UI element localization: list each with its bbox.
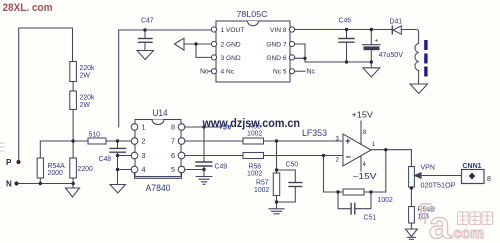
svg-text:220k: 220k bbox=[80, 95, 95, 102]
svg-text:6: 6 bbox=[171, 151, 175, 160]
node P dot bbox=[16, 160, 20, 164]
svg-text:C50: C50 bbox=[286, 162, 299, 169]
resistor R54A 2000 bbox=[39, 141, 41, 158]
svg-text:D41: D41 bbox=[390, 19, 403, 26]
resistor R56 1002 bbox=[243, 153, 264, 159]
resistor output upper bbox=[410, 150, 412, 167]
ground under electrolytic bbox=[370, 62, 372, 68]
resistor R55 1002 bbox=[243, 138, 264, 144]
resistor 510 bbox=[88, 138, 106, 144]
svg-text:2 GND: 2 GND bbox=[221, 42, 241, 49]
IC U14 A7840 box bbox=[135, 120, 181, 177]
pin text 78L05 left bbox=[221, 27, 245, 76]
pin circles 78L05 right bbox=[289, 27, 294, 32]
svg-text:a: a bbox=[429, 205, 451, 243]
svg-text:4: 4 bbox=[363, 162, 367, 168]
svg-text:CNN1: CNN1 bbox=[463, 163, 482, 170]
svg-text:4: 4 bbox=[142, 165, 146, 174]
svg-text:1 VOUT: 1 VOUT bbox=[221, 27, 245, 34]
resistor R57 branch bbox=[276, 141, 278, 173]
capacitor C46 bbox=[346, 30, 348, 39]
wire U14 pin3 bbox=[118, 155, 132, 157]
pin numbers U14 bbox=[142, 123, 176, 175]
connector CNN1 pin diamond bbox=[469, 173, 475, 180]
svg-text:2200: 2200 bbox=[78, 166, 93, 173]
capacitor C47 bbox=[144, 30, 146, 38]
op-amp U16 LF353 bbox=[343, 134, 371, 166]
arrow VPN bbox=[415, 173, 421, 179]
wire divider rail y141 bbox=[40, 140, 131, 142]
svg-text:+15V: +15V bbox=[352, 111, 374, 120]
svg-text:−: − bbox=[346, 152, 352, 163]
svg-text:2: 2 bbox=[336, 158, 340, 164]
wire +5V down to U14 pin1 bbox=[118, 30, 120, 127]
pin circles U14 left bbox=[131, 124, 138, 131]
svg-text:C49: C49 bbox=[215, 164, 228, 171]
svg-text:C46: C46 bbox=[339, 18, 352, 25]
capacitor electrolytic 47u50V bbox=[370, 30, 372, 45]
ground hatched under C49 bbox=[196, 177, 211, 185]
svg-text:1: 1 bbox=[142, 123, 146, 132]
svg-text:A7840: A7840 bbox=[146, 183, 171, 193]
wire U14 pin6 rail bbox=[185, 155, 243, 157]
diode D41 bbox=[391, 26, 393, 34]
svg-text:2W: 2W bbox=[80, 73, 91, 80]
svg-text:VIN 8: VIN 8 bbox=[270, 27, 287, 34]
pin numbers op-amp bbox=[336, 130, 376, 168]
svg-text:2: 2 bbox=[142, 137, 146, 146]
svg-text:020T51OP: 020T51OP bbox=[421, 183, 456, 190]
wire U14 pin7 rail bbox=[185, 140, 243, 142]
connector CNN1 box bbox=[462, 170, 485, 184]
resistor R 220k lower bbox=[70, 91, 77, 110]
svg-text:8: 8 bbox=[171, 123, 175, 132]
svg-text:U14: U14 bbox=[153, 108, 168, 118]
ground small under R54B bbox=[405, 229, 417, 237]
wire between 220k resistors bbox=[72, 82, 74, 92]
svg-text:8: 8 bbox=[487, 176, 491, 183]
capacitor C51 parallel bbox=[338, 192, 351, 209]
wire top-left loop bbox=[19, 28, 73, 162]
svg-text:−15V: −15V bbox=[353, 172, 378, 181]
ground under C47 bbox=[137, 51, 154, 60]
svg-text:3 GND: 3 GND bbox=[221, 55, 241, 62]
svg-text:3: 3 bbox=[142, 151, 146, 160]
ground hatched under R57 bbox=[269, 209, 284, 214]
svg-text:1002: 1002 bbox=[247, 131, 262, 138]
wire U14 pin8 +5V rail bbox=[185, 126, 222, 128]
svg-text:1: 1 bbox=[372, 142, 376, 148]
svg-text:4 Nc: 4 Nc bbox=[221, 69, 235, 76]
wire -15V supply bbox=[360, 156, 362, 171]
svg-text:1002: 1002 bbox=[254, 187, 269, 194]
ground under coil bbox=[418, 71, 420, 85]
svg-text:103: 103 bbox=[418, 214, 430, 221]
wire U14 pin4 bbox=[118, 169, 132, 171]
feedback network wire bbox=[324, 156, 344, 193]
wire Nc stub left pin4 bbox=[208, 70, 211, 72]
svg-text:8: 8 bbox=[363, 130, 367, 136]
svg-text:P: P bbox=[6, 158, 12, 167]
pin circles 78L05 left bbox=[211, 27, 216, 32]
svg-text:510: 510 bbox=[89, 132, 101, 139]
arrow input to 78L05 pins 2,3 bbox=[175, 38, 185, 50]
svg-text:.com: .com bbox=[449, 225, 484, 242]
svg-text:Nc: Nc bbox=[200, 69, 209, 76]
ground under 2200 bbox=[66, 188, 80, 197]
svg-text:LF353: LF353 bbox=[302, 128, 327, 138]
svg-text:N: N bbox=[6, 180, 12, 189]
resistor R54B 103 bbox=[409, 207, 415, 224]
svg-text:VPN: VPN bbox=[421, 165, 435, 172]
svg-text:1002: 1002 bbox=[378, 197, 393, 204]
svg-text:R55: R55 bbox=[249, 123, 262, 130]
resistor R 220k upper bbox=[70, 62, 77, 82]
watermark qijia bottom right bbox=[421, 204, 493, 243]
svg-text:R57: R57 bbox=[256, 180, 269, 187]
wire U14 pin4-pin5 strap bbox=[135, 173, 182, 179]
wire 220k chain to divider rail bbox=[72, 110, 74, 142]
capacitor C48 bbox=[117, 141, 119, 148]
wire op-amp output bbox=[371, 149, 412, 151]
svg-text:2W: 2W bbox=[80, 102, 91, 109]
wire C47 rail to 78L05 pin1 bbox=[119, 29, 212, 31]
inductor winding L1 bbox=[415, 44, 419, 71]
svg-text:+5V: +5V bbox=[219, 123, 232, 132]
ground under C48 bbox=[110, 185, 126, 194]
svg-text:1002: 1002 bbox=[247, 170, 262, 177]
svg-text:+: + bbox=[345, 136, 351, 147]
svg-text:+: + bbox=[375, 38, 379, 45]
svg-text:5: 5 bbox=[171, 165, 175, 174]
svg-text:C48: C48 bbox=[99, 156, 112, 163]
svg-text:220k: 220k bbox=[80, 65, 95, 72]
wire U14 pin5 to C49 bbox=[185, 169, 204, 171]
svg-text:R54A: R54A bbox=[48, 163, 66, 170]
faint left edge mark bbox=[0, 143, 5, 151]
wire Nc stub right pin5 bbox=[295, 70, 305, 72]
wire 78L05 pin7 to pin6 bbox=[295, 44, 305, 58]
svg-text:2000: 2000 bbox=[48, 170, 63, 177]
pin text 78L05 right bbox=[266, 27, 286, 76]
IC U15 78L05C box bbox=[216, 21, 290, 82]
svg-text:R56: R56 bbox=[249, 163, 262, 170]
svg-text:28XL. com: 28XL. com bbox=[3, 2, 53, 14]
wire VIN rail bbox=[295, 29, 392, 31]
svg-text:C51: C51 bbox=[364, 215, 377, 222]
svg-text:C47: C47 bbox=[141, 18, 154, 25]
svg-text:3: 3 bbox=[336, 137, 340, 143]
svg-text:7: 7 bbox=[171, 137, 175, 146]
wire +15V supply bbox=[360, 121, 362, 144]
node N dot bbox=[14, 181, 18, 185]
resistor 2200 bbox=[72, 141, 74, 158]
svg-text:GND 6: GND 6 bbox=[266, 55, 286, 62]
svg-text:47u50V: 47u50V bbox=[379, 52, 404, 59]
wire VPN to CNN1 bbox=[420, 175, 462, 177]
svg-text:Nc 5: Nc 5 bbox=[273, 69, 287, 76]
transformer core bars bbox=[424, 40, 427, 77]
svg-text:Nc: Nc bbox=[307, 69, 316, 76]
capacitor C49 branch bbox=[203, 127, 205, 162]
pin circles U14 right bbox=[178, 124, 185, 131]
svg-text:GND 7: GND 7 bbox=[266, 42, 286, 49]
wire diode to coil bbox=[401, 30, 418, 44]
wire N rail bbox=[17, 183, 74, 185]
svg-text:78L05C: 78L05C bbox=[237, 9, 268, 19]
capacitor C50 parallel bracket bbox=[277, 170, 296, 182]
